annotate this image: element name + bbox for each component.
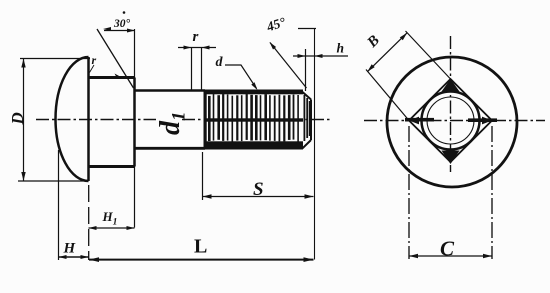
svg-text:L: L (194, 236, 207, 258)
svg-text:C: C (440, 237, 455, 261)
svg-text:r: r (193, 29, 199, 45)
svg-text:45°: 45° (264, 14, 288, 35)
svg-text:d1: d1 (155, 112, 190, 136)
svg-text:30°: 30° (113, 18, 131, 30)
svg-text:H: H (63, 241, 77, 257)
svg-text:B: B (364, 32, 383, 51)
svg-text:h: h (337, 41, 345, 56)
svg-text:S: S (253, 179, 264, 200)
svg-text:H1: H1 (102, 209, 118, 228)
svg-text:r: r (92, 53, 97, 67)
svg-text:D: D (8, 112, 27, 125)
svg-text:d: d (216, 55, 224, 70)
